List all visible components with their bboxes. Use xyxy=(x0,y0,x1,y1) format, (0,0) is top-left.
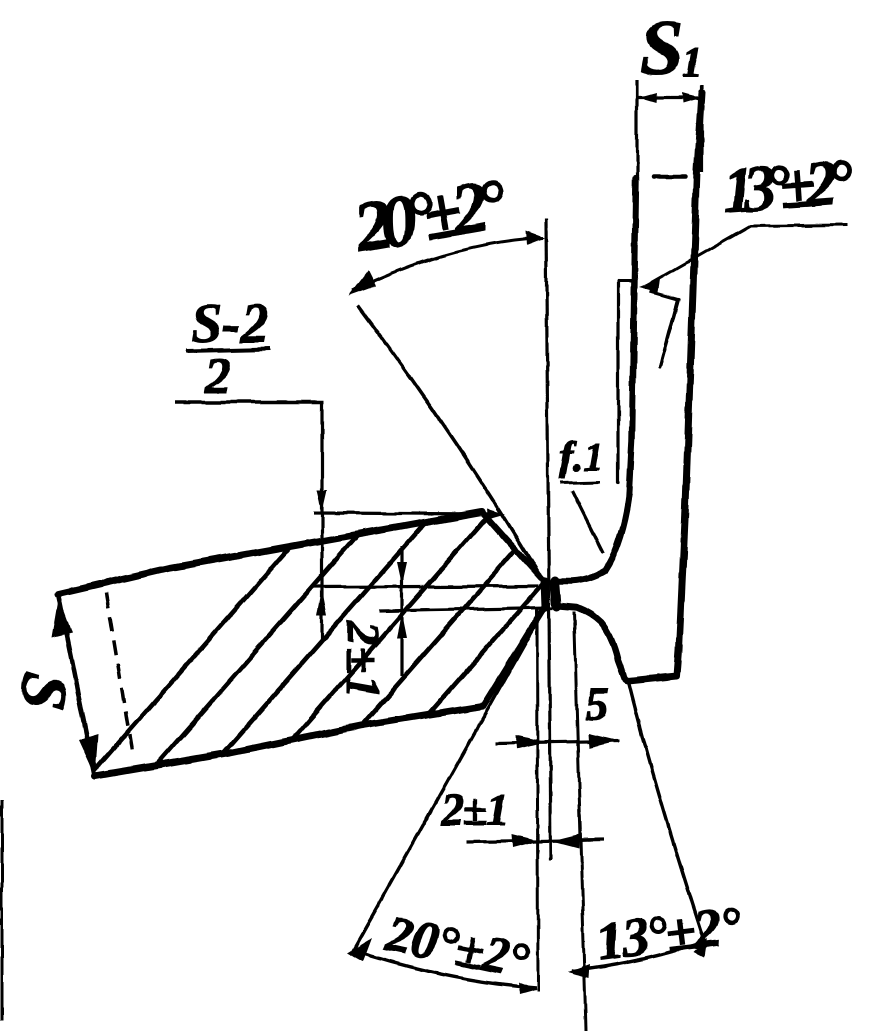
2+-1 root gap dimension line xyxy=(467,840,604,842)
S dimension arrow (upper, on left end edge) xyxy=(52,597,72,638)
svg-text:1: 1 xyxy=(682,40,703,86)
left plate upper bevel edge xyxy=(482,512,541,578)
right plate (vertical sheet with joggled flange) xyxy=(553,92,702,681)
right plate left edge with joggle curve and root tip xyxy=(553,178,636,681)
bottom 13 deg slant line (flange bevel extension) xyxy=(629,684,706,946)
right plate bevel face back line xyxy=(616,281,619,483)
(S-2)/2 arrow upper xyxy=(317,490,327,512)
13 deg top leader zigzag tail xyxy=(650,291,678,367)
S1 extension line left xyxy=(635,80,638,178)
bottom 20 deg arc arrowhead right xyxy=(518,982,537,994)
S1 dimension arrow left xyxy=(639,93,657,103)
left plate bottom edge xyxy=(95,706,483,776)
f.1 leader line xyxy=(572,491,603,553)
extension line at root tip top xyxy=(313,586,538,587)
right plate bevel face top connector xyxy=(618,280,633,283)
svg-text:2±1: 2±1 xyxy=(336,620,389,699)
svg-text:2±1: 2±1 xyxy=(440,784,509,835)
rotated 2+-1 arrow upper xyxy=(397,562,407,585)
S1 dimension arrow right xyxy=(682,93,700,103)
rotated 2+-1 arrow lower xyxy=(397,613,407,638)
left plate left end edge (thickness S) xyxy=(58,594,95,776)
bottom 20 deg arc arrowhead left xyxy=(347,938,372,962)
svg-text:f.1: f.1 xyxy=(560,434,603,479)
left plate top edge xyxy=(58,512,482,594)
rotated 2+-1 vertical dimension line xyxy=(400,546,403,676)
(S-2)/2 fraction bar xyxy=(186,349,270,351)
svg-text:S: S xyxy=(640,4,683,91)
bottom 13 deg arc arrowhead left xyxy=(568,964,590,978)
5 gap dimension line xyxy=(495,741,619,743)
root face extension line left xyxy=(537,608,538,991)
left plate lower bevel edge (thick part) xyxy=(483,605,546,707)
bottom 13 deg angle arc xyxy=(572,942,704,971)
right plate break dash at top xyxy=(654,175,685,180)
S1 dimension line xyxy=(638,96,701,99)
5 gap arrow left xyxy=(516,735,545,749)
bottom 13 deg arc arrowhead right xyxy=(694,938,707,957)
bottom 20 deg angle arc xyxy=(352,950,536,988)
20 deg top arc arrowhead left xyxy=(348,270,376,296)
S dimension arrow (lower, on left end edge) xyxy=(79,734,99,777)
arrowhead at bevel shoulder line xyxy=(487,509,505,519)
weld root center line xyxy=(546,219,551,861)
13 deg top leader line xyxy=(646,225,847,286)
upper bevel face extension line (20 deg) xyxy=(358,305,541,578)
(S-2)/2 arrow lower xyxy=(317,589,327,615)
2+-1 root gap arrow right xyxy=(552,834,580,848)
extension line at root tip bottom xyxy=(379,608,553,611)
dashed trim line near left end of plate xyxy=(106,593,133,757)
right plate right edge and flange bottom edge xyxy=(628,92,702,681)
svg-text:S-2: S-2 xyxy=(191,293,269,355)
right plate 13 deg bevel direction line xyxy=(660,299,679,367)
left plate (beveled sheet, section view) xyxy=(58,512,546,776)
left plate root tip face xyxy=(545,581,546,607)
(S-2)/2 horizontal leader xyxy=(175,400,324,404)
f.1 label underline xyxy=(561,482,600,483)
svg-text:2: 2 xyxy=(204,348,231,405)
20 deg top angle arc xyxy=(352,238,543,291)
lower bevel face extension line (20 deg) xyxy=(352,606,546,952)
2+-1 root gap arrow left xyxy=(512,834,540,848)
S1 extension line right xyxy=(700,84,703,172)
left plate section hatching xyxy=(58,458,824,812)
5 gap arrow right xyxy=(588,734,617,748)
right plate root tip face xyxy=(555,580,557,606)
root face extension line right xyxy=(574,611,586,1031)
20 deg top arc arrowhead right xyxy=(526,231,545,245)
svg-text:13°±2°: 13°±2° xyxy=(720,146,855,226)
svg-text:5: 5 xyxy=(585,678,609,731)
(S-2)/2 vertical dimension line xyxy=(320,402,323,641)
extension line at bevel shoulder xyxy=(314,513,498,514)
page edge artifact line (left margin) xyxy=(1,800,4,1021)
13 deg top leader arrowhead xyxy=(639,279,660,292)
